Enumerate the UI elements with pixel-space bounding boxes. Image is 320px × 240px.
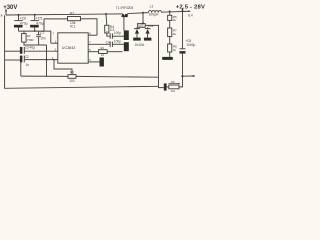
node junction output column (182, 10, 184, 12)
capacitor C8 (180, 39, 196, 54)
wire C2 bottom to feedback line (20, 63, 22, 77)
resistor R1 (68, 12, 81, 25)
wire jog to R3 (54, 60, 72, 75)
pin 8 (88, 32, 97, 36)
terminal в label (1, 13, 3, 17)
svg-text:C1: C1 (106, 31, 110, 35)
inductor L1 (148, 10, 161, 12)
svg-text:750R: 750R (27, 38, 34, 42)
output arrow right (183, 75, 196, 77)
node junction feedback/output (181, 75, 183, 77)
label output current (188, 13, 193, 17)
capacitor C6 (14, 15, 28, 31)
label box VD1 (138, 24, 146, 28)
svg-text:IC1: IC1 (70, 25, 76, 29)
svg-text:100p: 100p (114, 39, 121, 43)
node dot pin4 drop (53, 59, 55, 61)
ground bar pot (164, 83, 167, 90)
node junction R5 stack (169, 11, 171, 13)
pin 4 wire (25, 56, 58, 60)
transistor T1 label (116, 6, 134, 10)
label output voltage (176, 5, 205, 11)
wire R4 vertical feed (106, 14, 110, 36)
transistor T1 IRF3205 (122, 14, 128, 31)
svg-text:R4: R4 (100, 46, 104, 50)
resistor R3 (68, 71, 76, 83)
resistor R4 vertical (105, 25, 115, 33)
svg-text:4k: 4k (173, 18, 177, 22)
svg-text:10: 10 (101, 53, 105, 57)
node junction C6 (18, 14, 20, 16)
svg-text:в: в (1, 13, 3, 17)
ground bar C4 (124, 42, 129, 51)
svg-text:100p: 100p (114, 31, 121, 35)
resistor R5 (168, 15, 177, 22)
capacitor C4 (88, 39, 124, 47)
svg-text:R1: R1 (70, 12, 74, 16)
svg-text:10n: 10n (40, 37, 46, 41)
node dot diode feed top (142, 22, 144, 24)
svg-text:6,4: 6,4 (188, 13, 193, 17)
wire feedback vertical (46, 45, 48, 76)
wire main top rail (6, 14, 123, 15)
svg-text:470µ: 470µ (20, 21, 28, 25)
svg-text:+C5: +C5 (36, 16, 43, 20)
resistor R8 (168, 44, 177, 52)
wire R5 stack vertical (169, 12, 171, 57)
pin 5 ground wire (88, 58, 99, 62)
capacitor C1 (106, 31, 124, 39)
svg-text:100µH: 100µH (149, 12, 159, 16)
capacitor C3 (5, 46, 36, 54)
svg-text:C7: C7 (40, 31, 44, 35)
+30V input arrow (5, 9, 7, 15)
svg-text:VD2: VD2 (148, 24, 154, 28)
label IC1 (70, 25, 76, 29)
svg-text:R9: R9 (171, 80, 175, 84)
wire drop from R1 line to lower net (43, 19, 45, 31)
pin 6 (88, 48, 98, 52)
svg-text:1k: 1k (173, 48, 177, 52)
label diodes value (135, 43, 145, 47)
wire diode feed (143, 13, 159, 77)
diode VD1 (135, 28, 140, 38)
capacitor C7 (36, 31, 46, 45)
ground bar pin5 (100, 58, 104, 67)
capacitor C5 (30, 15, 44, 31)
svg-text:UC3843: UC3843 (62, 46, 76, 50)
svg-text:L1: L1 (150, 4, 154, 8)
inductor L1 label (150, 4, 154, 8)
node junction R4 feed (105, 13, 107, 15)
capacitor C2 (5, 55, 30, 67)
svg-text:470µ: 470µ (36, 21, 44, 25)
node junction diode feed (142, 12, 144, 14)
output arrow right top (188, 10, 191, 12)
svg-text:2x10A: 2x10A (135, 43, 145, 47)
op-amp IC1 UC3843 box (58, 33, 88, 63)
svg-text:R3: R3 (70, 71, 74, 75)
node junction C5 (34, 14, 36, 16)
wire upper left net (19, 31, 51, 43)
wire rail after mosfet (128, 11, 190, 13)
svg-text:C4: C4 (106, 40, 110, 44)
svg-text:+2.5 - 28V: +2.5 - 28V (176, 5, 205, 11)
node dot pin2/feedback drop (46, 59, 48, 61)
wire left ground rail (5, 15, 159, 88)
wire diode cathode bus (137, 26, 148, 29)
wire output column (182, 11, 184, 76)
ground bar VD1 (133, 38, 141, 41)
wire R1 feed line (44, 19, 97, 36)
svg-text:C2: C2 (25, 55, 29, 59)
resistor R4a gate (99, 46, 123, 57)
ground bar R8 (162, 57, 173, 60)
svg-text:T1 IRF3205: T1 IRF3205 (116, 6, 134, 10)
label L1 value (149, 12, 159, 16)
node +30V input label (3, 5, 17, 11)
pin 7 (89, 41, 91, 45)
svg-text:4k: 4k (173, 32, 177, 36)
svg-text:+C6: +C6 (20, 16, 27, 20)
ground bar VD2 (144, 38, 152, 41)
resistor R2 (22, 31, 47, 45)
output +2.5-28V arrow (181, 8, 183, 12)
node dot C5 drop (34, 30, 36, 32)
ground bar C1 (124, 30, 129, 40)
svg-text:100: 100 (69, 79, 75, 83)
pin 2 (25, 48, 58, 52)
svg-text:1000µ: 1000µ (186, 43, 195, 47)
potentiometer R9 (167, 76, 183, 93)
label VD2 (148, 24, 154, 28)
resistor R7 (168, 28, 177, 37)
svg-text:1n: 1n (25, 63, 29, 67)
wire lower feedback line (21, 76, 159, 77)
wire pot branch (159, 77, 164, 87)
diode VD2 (145, 28, 150, 38)
pin 1 (51, 31, 58, 43)
svg-text:C3 40µ: C3 40µ (25, 46, 36, 50)
